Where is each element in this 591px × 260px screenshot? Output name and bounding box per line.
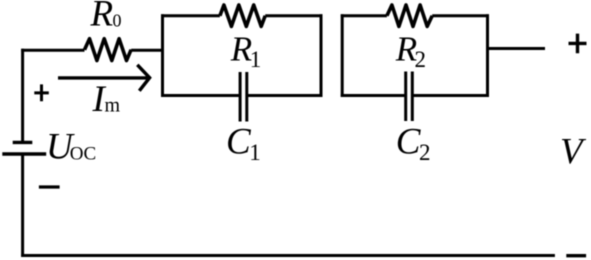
label R1 [230,30,262,73]
capacitor C2 [406,72,413,122]
label R2 [395,30,426,73]
battery U_OC short plate [13,141,33,144]
battery minus sign [39,185,60,188]
resistor R2 [387,5,432,26]
wire box 1 bottom edge (left part) [161,94,240,97]
label U_OC [46,127,96,168]
label I_m [92,79,121,120]
svg-text:0: 0 [113,11,122,31]
wire box 2 top edge (right part) [432,14,489,17]
battery plus sign [34,84,49,101]
wire box 2 to positive terminal [488,47,546,50]
wire bottom horizontal [21,254,555,257]
label C2 [396,122,431,165]
negative terminal minus sign [566,254,586,257]
svg-text:OC: OC [70,144,96,165]
svg-text:m: m [105,95,121,117]
label R0 [90,0,122,34]
label C1 [226,122,261,165]
svg-text:R: R [90,0,114,34]
label V [560,131,587,172]
wire top-left horizontal [21,49,84,52]
resistor R0 [85,39,132,61]
capacitor C1 [240,72,247,122]
svg-text:1: 1 [250,47,261,72]
svg-text:R: R [230,30,252,69]
wire box 2 bottom edge (right part) [412,94,489,97]
node: RC block 2 left edge [341,14,344,97]
wire box 1 bottom edge (right part) [247,94,323,97]
svg-text:C: C [396,122,422,163]
svg-text:2: 2 [419,140,431,165]
wire box 2 top edge (left part) [341,14,387,17]
wire box 1 top edge (right part) [265,14,322,17]
svg-text:2: 2 [415,47,427,72]
battery U_OC long plate [2,152,46,155]
current arrow I_m [58,65,150,91]
node: RC block 1 right edge [320,14,323,97]
node: RC block 1 left edge [161,14,164,97]
wire left vertical lower [21,155,24,257]
resistor R1 [220,5,265,26]
wire box 1 top edge (left part) [161,14,220,17]
svg-text:C: C [226,122,252,163]
node: RC block 2 right edge [486,14,489,97]
svg-text:V: V [560,131,587,172]
wire box 2 bottom edge (left part) [341,94,406,97]
wire resistor R0 to box 1 [131,49,164,52]
wire left vertical upper [21,49,24,141]
svg-text:1: 1 [249,140,260,165]
positive terminal plus sign [569,34,587,54]
